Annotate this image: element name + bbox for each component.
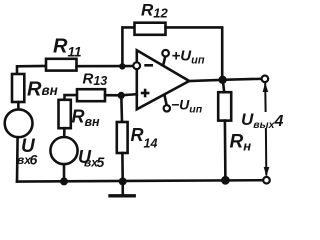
op-amp inverting bubble [133,62,140,69]
svg-text:6: 6 [30,152,38,168]
output terminal top [262,76,269,83]
wire Rвн to Uвх6 [17,102,20,110]
power terminal +Uип [162,50,169,57]
arrowhead down (bottom output terminal) [264,167,270,176]
wire left branch top corner to R11 [17,66,46,74]
svg-text:R11: R11 [53,36,81,60]
wire feedback vertical up [122,27,134,66]
wire R12 right to output column [166,27,223,77]
wire R13 to noninverting node [105,94,121,97]
resistor R12 [135,23,166,35]
wire op-amp output [189,80,222,81]
wire noninverting input [121,94,137,95]
resistor Rвн (left input internal resistance) [12,74,24,102]
node: inverting input junction [119,63,125,69]
op-amp U1 triangle [137,50,189,109]
svg-text:R13: R13 [83,71,108,88]
node: noninverting input junction [118,92,125,99]
svg-text:Uвых4: Uвых4 [241,110,283,131]
node: Rн bus junction [221,176,230,185]
wire bottom bus [17,180,264,181]
node: ground bus junction [119,177,127,185]
wire R13 left corner from Rвн branch [65,95,78,100]
svg-text:R12: R12 [141,0,169,20]
wire R14 to bus [121,153,124,181]
wire output node to top terminal [223,79,263,80]
wire output node down to Rн [223,80,224,92]
node: output junction [218,76,226,84]
resistor R13 [77,89,105,101]
power stub -Uип [165,97,167,105]
svg-text:R14: R14 [131,125,158,151]
power stub +Uип [163,57,165,65]
op-amp minus sign [144,64,153,67]
ground stub [121,181,124,195]
svg-text:Rвн: Rвн [72,107,101,130]
svg-text:5: 5 [97,154,105,170]
wire Uвх6 to bus [16,137,19,181]
arrowhead up (top output terminal) [263,83,269,92]
wire Rн to bus [224,121,227,181]
wire Rвн2 to Uвх5 [63,128,66,137]
wire R11 to inverting node [77,65,134,68]
output terminal bottom [263,177,270,184]
svg-text:Rвн: Rвн [27,79,58,101]
ground bar [110,194,134,197]
svg-text:+Uип: +Uип [172,48,205,67]
resistor Rн load [218,92,231,120]
resistor Rвн (second source internal resistance) [59,100,71,128]
source Uвх6 [5,109,33,137]
svg-text:−Uип: −Uип [171,97,203,116]
power terminal -Uип [164,105,170,111]
op-amp plus sign [141,92,150,95]
resistor R11 [46,59,77,71]
svg-text:Rн: Rн [230,132,252,154]
node: Uвх5 bus junction [60,177,68,185]
resistor R14 [117,122,128,153]
wire noninverting node down to R14 [120,95,123,122]
Uвых measurement arrow line [264,84,266,111]
source Uвх5 [50,137,77,164]
wire Uвх5 to bus [63,164,66,181]
